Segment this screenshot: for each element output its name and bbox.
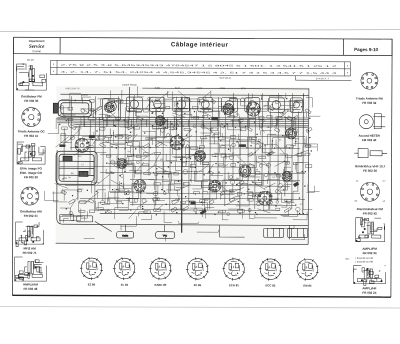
svg-text:50 B 545 41: 50 B 545 41 <box>220 78 233 80</box>
header right cell: Pages 9-10 <box>354 47 378 52</box>
ampli HF caption <box>362 286 376 294</box>
tube socket V12 <box>195 150 206 161</box>
svg-text:Cadre: Cadre <box>122 234 129 237</box>
tube socket V14 <box>282 171 292 181</box>
svg-text:Accord HÉTÉR: Accord HÉTÉR <box>358 133 380 138</box>
svg-text:Central: Central <box>32 49 41 53</box>
svg-text:5n: 5n <box>279 139 281 141</box>
svg-text:Élim. image FO: Élim. image FO <box>20 165 42 170</box>
tube socket V6 <box>246 102 260 116</box>
svg-text:10k: 10k <box>64 178 67 180</box>
svg-text:5n: 5n <box>269 154 271 156</box>
tube socket V2 <box>104 102 114 112</box>
oscillator FM module <box>16 64 46 90</box>
svg-text:ECC 85: ECC 85 <box>266 283 276 287</box>
svg-text:FR 002 30: FR 002 30 <box>24 99 38 103</box>
ampli AM module <box>14 257 46 281</box>
accord heter caption <box>358 133 380 143</box>
IF block transformer <box>56 151 97 184</box>
svg-text:Lampe témoin: Lampe témoin <box>122 84 138 87</box>
tube socket V5 <box>223 104 234 115</box>
tube base diagram ECH 81 <box>222 258 245 288</box>
oscillator coil can <box>102 98 120 120</box>
svg-text:1M: 1M <box>228 154 231 156</box>
svg-text:EL84: EL84 <box>175 88 181 90</box>
tube socket V9 <box>258 191 272 205</box>
svg-text:EABC: EABC <box>196 87 202 90</box>
svg-text:Câblage intérieur: Câblage intérieur <box>171 41 229 48</box>
svg-text:1k: 1k <box>301 152 303 154</box>
pickup connector <box>156 232 175 239</box>
svg-text:Pages 9-10: Pages 9-10 <box>354 47 378 52</box>
parts list table <box>50 60 351 80</box>
triode antenne FM caption <box>356 96 383 105</box>
svg-text:4 50 21 54 7 6: 4 50 21 54 7 6 <box>65 88 80 90</box>
svg-text:| branché en FM: | branché en FM <box>356 257 373 260</box>
svg-text:KA :: KA : <box>346 258 351 261</box>
svg-text:10k: 10k <box>205 200 208 202</box>
ampli HF module <box>353 266 385 286</box>
ampli FM module <box>356 218 385 242</box>
tube socket V10 <box>117 158 127 168</box>
svg-text:54 A 241 4 .7: 54 A 241 4 .7 <box>316 77 330 80</box>
bottom frame line <box>12 295 390 297</box>
header left cell: Departement Service Central <box>29 39 45 53</box>
MF caption <box>23 246 37 254</box>
speaker leads <box>126 225 290 240</box>
svg-text:1M: 1M <box>255 169 258 171</box>
header frame <box>14 37 393 55</box>
tube socket V1 <box>75 138 89 152</box>
tube base diagram EF 85 <box>186 257 209 287</box>
svg-text:1k: 1k <box>276 120 278 122</box>
left frame line <box>12 37 13 295</box>
scan tint central <box>56 86 310 244</box>
svg-text:FR 002 42: FR 002 42 <box>363 211 377 215</box>
dial lamp holder <box>117 231 134 238</box>
svg-text:5n: 5n <box>128 151 130 153</box>
triode antenne OC caption <box>18 129 46 138</box>
chassis outline <box>56 87 309 244</box>
tube socket V4 <box>170 136 184 150</box>
svg-text:P U: P U <box>163 236 167 238</box>
svg-text:FR 002 31: FR 002 31 <box>24 214 38 218</box>
triode antenne FM socket <box>361 72 378 89</box>
svg-text:2M: 2M <box>109 172 112 174</box>
oscillator FM caption <box>21 94 42 103</box>
tube socket V7 <box>286 128 297 139</box>
svg-text:FR 002 34: FR 002 34 <box>363 251 377 255</box>
elim image caption <box>20 165 43 179</box>
lampe temoin label <box>122 84 138 113</box>
svg-text:FR 002 32: FR 002 32 <box>362 101 376 105</box>
distributed wiring texture <box>44 86 320 223</box>
below-chassis wires <box>60 214 305 242</box>
right frame line <box>391 39 392 297</box>
discriminateur socket <box>360 182 379 201</box>
tube base diagram EABC 80 <box>149 257 172 287</box>
generatrice caption <box>355 164 386 173</box>
elim image module <box>17 142 45 164</box>
svg-text:FR 002 41: FR 002 41 <box>24 134 38 138</box>
svg-text:Bn: Bn <box>236 178 238 180</box>
svg-text:10k: 10k <box>171 129 174 131</box>
svg-text:FE 002 36: FE 002 36 <box>363 169 377 173</box>
svg-text:EM 84: EM 84 <box>303 284 312 288</box>
svg-text:1M: 1M <box>199 147 202 149</box>
svg-text:FE 002 48: FE 002 48 <box>23 287 37 291</box>
svg-text:1k: 1k <box>169 143 171 145</box>
svg-text:EZ80: EZ80 <box>155 88 161 90</box>
thick feed wire <box>181 97 182 233</box>
svg-text:EF85: EF85 <box>220 88 226 90</box>
svg-text:FM 002 40: FM 002 40 <box>362 138 377 142</box>
oscillatrice AM caption <box>20 209 42 218</box>
svg-text:1k: 1k <box>233 110 235 112</box>
left column label <box>27 59 34 62</box>
IF can row <box>126 97 302 112</box>
svg-text:EL 84: EL 84 <box>121 283 129 287</box>
MF module <box>16 222 44 247</box>
svg-text:Service: Service <box>29 44 45 50</box>
svg-text:ECH: ECH <box>241 88 246 90</box>
svg-text:5n: 5n <box>69 177 71 179</box>
svg-text:| branché en AM: | branché en AM <box>356 260 373 263</box>
chassis left tag strip <box>60 215 112 232</box>
mains transformer can <box>53 100 91 116</box>
discriminateur caption <box>357 207 384 216</box>
svg-text:EF 85: EF 85 <box>194 283 202 287</box>
trunk wires horizontal <box>60 92 306 211</box>
svg-text:Département: Département <box>29 39 45 43</box>
svg-text:2M: 2M <box>228 105 231 107</box>
discriminateur pin labels <box>355 181 387 203</box>
output connector blocks <box>264 228 308 237</box>
ampli FM caption <box>362 247 377 255</box>
harness verticals <box>68 117 292 127</box>
note branche <box>346 257 373 264</box>
component value labels <box>62 99 306 206</box>
svg-text:EABC 80: EABC 80 <box>155 283 167 287</box>
svg-text:10k: 10k <box>256 195 259 197</box>
svg-text:1M: 1M <box>108 115 111 117</box>
svg-text:FR 002 71: FR 002 71 <box>23 251 37 255</box>
main wiring harness <box>57 117 308 128</box>
svg-text:FR 002 20: FR 002 20 <box>24 175 38 179</box>
tube base diagram EM 84 <box>296 258 319 288</box>
svg-text:Élim. image GO: Élim. image GO <box>20 170 43 175</box>
svg-text:1k: 1k <box>198 154 200 156</box>
tube base diagram ECC 85 <box>259 258 282 287</box>
oscillatrice AM socket <box>21 187 39 205</box>
svg-text:FR 002 24: FR 002 24 <box>362 291 376 295</box>
tube socket V13 <box>239 165 251 177</box>
page bottom edge <box>0 307 400 309</box>
svg-text:10k: 10k <box>206 100 209 102</box>
top tube labels <box>65 86 246 91</box>
page top edge <box>0 30 400 32</box>
tube socket V11 <box>155 116 165 126</box>
tube base diagram EL 84 <box>113 257 136 287</box>
accord heter trimmer <box>359 114 385 129</box>
tube socket V8 <box>209 180 221 192</box>
svg-text:EZ 80: EZ 80 <box>88 283 96 287</box>
generatrice component <box>354 149 387 158</box>
svg-text:MA 4%: MA 4% <box>27 59 34 62</box>
svg-text:ECH 81: ECH 81 <box>229 283 239 287</box>
tube socket V3 <box>134 180 146 192</box>
header title: Cablage interieur <box>171 41 229 48</box>
tube base diagram EZ 80 <box>80 257 103 287</box>
ampli AM caption <box>23 282 38 290</box>
triode antenne OC socket <box>22 108 41 127</box>
